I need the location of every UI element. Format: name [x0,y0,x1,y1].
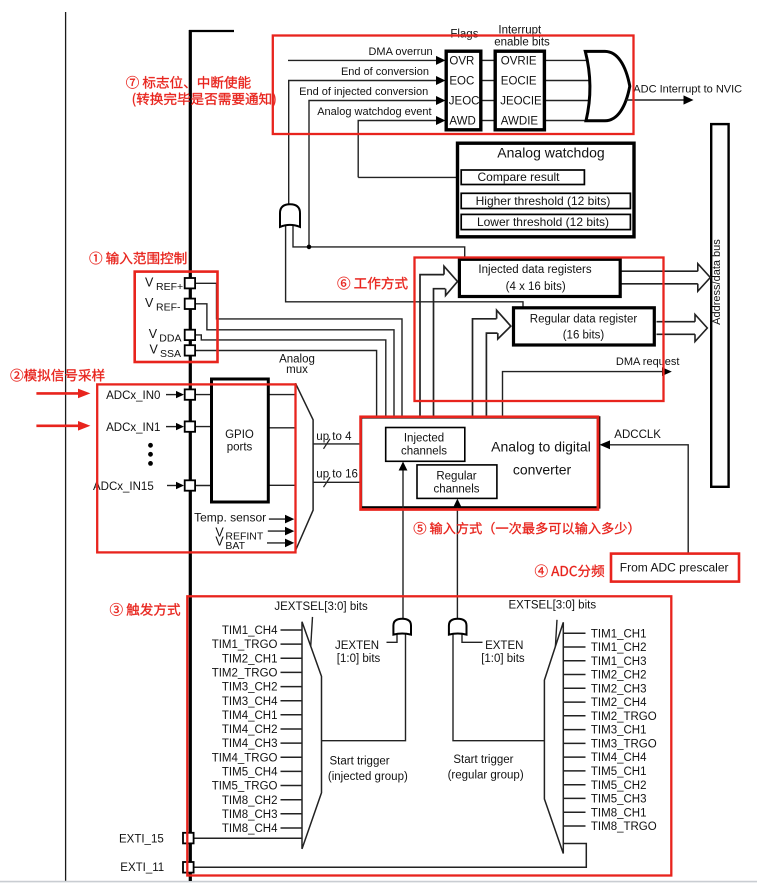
svg-text:TIM4_CH2: TIM4_CH2 [222,724,278,736]
svg-text:[1:0] bits: [1:0] bits [481,653,525,665]
red label 5 [414,522,632,535]
red arrow into ADCx_IN0 [36,392,80,395]
wire EXTI_15 [194,837,302,839]
svg-text:GPIO: GPIO [225,429,254,441]
svg-text:Injected: Injected [404,432,444,444]
wire: EOC gate input 2 / JEOC to injected register [293,226,465,260]
red label 7 [126,76,250,89]
injected channels box [386,428,465,462]
svg-text:Analog watchdog: Analog watchdog [497,144,604,160]
svg-text:TIM1_CH4: TIM1_CH4 [222,625,278,637]
svg-text:TIM2_CH1: TIM2_CH1 [222,653,278,665]
svg-text:TIM4_CH3: TIM4_CH3 [222,738,278,750]
regular channels box [417,465,497,499]
wire JEXTSEL select [311,617,313,650]
svg-text:TIM1_CH2: TIM1_CH2 [591,642,647,654]
svg-text:TIM5_CH1: TIM5_CH1 [591,766,647,778]
pin ADCx_IN0 [185,389,195,399]
svg-text:TIM5_TRGO: TIM5_TRGO [212,781,278,793]
svg-text:V: V [150,342,159,356]
svg-text:up to 16: up to 16 [316,469,358,481]
svg-text:OVR: OVR [449,55,474,67]
wire: compare result to AWD [358,176,462,178]
svg-text:DMA overrun: DMA overrun [368,46,432,58]
pin boundary thick line [189,30,192,881]
red label 2 [11,369,105,382]
svg-text:Start trigger: Start trigger [330,756,390,768]
svg-text:TIM8_CH2: TIM8_CH2 [222,795,278,807]
svg-text:Regular data register: Regular data register [530,314,638,326]
wire up to 4 [313,443,381,445]
svg-text:Temp. sensor: Temp. sensor [194,510,266,524]
svg-text:TIM1_CH1: TIM1_CH1 [591,628,647,640]
red annotation box 2 analog sampling [97,384,295,552]
left mux trapezoid (injected trigger) [302,622,322,849]
red annotation box 3 triggers [187,596,671,875]
svg-text:End of conversion: End of conversion [341,66,429,78]
svg-text:JEXTSEL[3:0] bits: JEXTSEL[3:0] bits [274,601,368,613]
svg-text:AWD: AWD [449,116,475,128]
svg-text:TIM3_CH4: TIM3_CH4 [222,696,278,708]
wires: enable box to OR gate [546,60,594,120]
pin VDDA [185,330,195,340]
wire inner shaft line regular [486,333,497,464]
svg-text:V: V [145,296,154,310]
svg-text:TIM2_TRGO: TIM2_TRGO [212,668,278,680]
wire JEXTEN label to gate [387,634,398,642]
flags register box [446,51,481,130]
svg-text:Lower threshold (12 bits): Lower threshold (12 bits) [477,215,609,229]
svg-text:EXTSEL[3:0] bits: EXTSEL[3:0] bits [509,600,597,612]
wire ADCCLK [609,445,688,554]
pin ADCx_IN1 [185,421,195,431]
svg-text:EXTI_15: EXTI_15 [119,833,164,845]
svg-text:DDA: DDA [159,332,181,344]
wire ADCx_IN1 [195,426,212,428]
red annotation box 5 converter [361,417,598,510]
right mux trapezoid (regular trigger) [544,622,563,853]
svg-text:JEXTEN: JEXTEN [335,640,379,652]
svg-text:(16 bits): (16 bits) [563,330,605,342]
svg-text:channels: channels [401,445,447,457]
pin EXTI_15 [183,833,194,844]
ellipsis dots [148,443,153,448]
pin ADCx_IN15 [185,480,195,490]
svg-text:EOC: EOC [449,76,474,88]
svg-text:EXTEN: EXTEN [485,640,523,652]
wire: ADC interrupt output [626,99,685,101]
svg-text:Start trigger: Start trigger [453,754,513,766]
hollow arrow regular register to bus [657,315,708,342]
svg-text:Compare result: Compare result [477,170,560,184]
svg-text:TIM2_TRGO: TIM2_TRGO [591,711,657,723]
red label 3 [110,603,180,616]
injected data registers box [459,259,620,296]
svg-text:ADCx_IN1: ADCx_IN1 [106,422,160,434]
wire: DMA request [503,372,664,420]
interrupt enable box [495,51,544,130]
svg-text:TIM5_CH2: TIM5_CH2 [591,780,647,792]
svg-text:(4 x 16 bits): (4 x 16 bits) [506,281,566,293]
svg-text:Regular: Regular [436,470,476,482]
svg-text:TIM2_CH4: TIM2_CH4 [591,697,647,709]
svg-text:AWDIE: AWDIE [501,116,539,128]
svg-text:REF+: REF+ [156,281,183,293]
svg-text:SSA: SSA [160,348,181,360]
svg-text:V: V [145,275,154,289]
svg-text:TIM4_TRGO: TIM4_TRGO [212,752,278,764]
svg-text:[1:0] bits: [1:0] bits [337,653,381,665]
svg-text:(regular group): (regular group) [448,769,524,781]
svg-text:converter: converter [513,462,572,478]
page left rule line [65,12,67,881]
svg-text:ports: ports [227,442,253,454]
svg-text:End of injected conversion: End of injected conversion [299,86,428,98]
svg-text:TIM5_CH4: TIM5_CH4 [222,767,278,779]
wire EXTSEL select [555,620,557,653]
wire ADCx_IN0 [195,394,212,396]
svg-text:V: V [149,327,158,341]
GPIO ports box [212,379,269,502]
analog watchdog box [458,143,635,237]
svg-text:REF-: REF- [156,301,181,313]
wire VREF- routing [195,304,394,420]
red arrow into ADCx_IN1 [36,424,80,427]
trigger wire regular (EXTEN gate output) [456,506,458,619]
wire+head hollow arrow injected channels to injected registers (outer) [420,275,444,427]
svg-text:Analog watchdog event: Analog watchdog event [317,106,431,118]
svg-text:TIM4_CH1: TIM4_CH1 [222,710,278,722]
svg-text:JEOCIE: JEOCIE [500,96,542,108]
junction node JEOC [307,245,312,250]
wire: Analog watchdog event feed [358,121,437,178]
svg-text:OVRIE: OVRIE [501,55,537,67]
wire VREF+ routing [195,283,402,419]
OR gate U2 end-of-conversion [280,204,300,227]
pin EXTI_11 [183,862,194,873]
svg-text:Injected data registers: Injected data registers [478,264,591,276]
svg-text:TIM8_CH4: TIM8_CH4 [222,823,278,835]
svg-text:EOCIE: EOCIE [501,76,537,88]
From ADC prescaler box (red) [611,554,739,582]
svg-text:TIM2_CH2: TIM2_CH2 [591,670,647,682]
svg-text:ADCx_IN0: ADCx_IN0 [106,390,160,402]
wire: End of conversion feed [289,81,437,205]
wire left mux output to JEXTEN gate [322,634,406,741]
page bottom rule line [0,881,757,883]
wire ADCx_IN15 [195,485,212,487]
AND gate EXTEN [449,619,467,635]
svg-text:TIM3_CH1: TIM3_CH1 [591,725,647,737]
svg-text:DMA request: DMA request [616,356,680,368]
svg-text:TIM4_CH4: TIM4_CH4 [591,752,647,764]
hollow arrow head injected [444,266,458,295]
red annotation box 7 flags [273,36,634,135]
svg-text:BAT: BAT [225,540,245,552]
compare result box [461,170,584,185]
svg-text:TIM1_CH3: TIM1_CH3 [591,656,647,668]
svg-text:TIM3_CH2: TIM3_CH2 [222,682,278,694]
lower threshold box [461,214,630,229]
wire right mux output to EXTEN gate [453,634,544,741]
hollow arrow injected registers to bus [621,264,710,292]
red label 1 [90,252,187,265]
hollow arrow head regular [497,310,511,339]
pin VREF- [185,299,195,309]
regular data register box [514,308,655,345]
svg-text:V: V [215,535,224,549]
svg-text:channels: channels [433,483,479,495]
trigger wire injected (JEXTEN gate output) [402,469,404,619]
svg-text:ADCx_IN15: ADCx_IN15 [93,481,154,493]
svg-text:TIM8_TRGO: TIM8_TRGO [591,821,657,833]
wire EXTI_11 to right mux [194,844,586,868]
red label 6 [338,277,408,290]
svg-text:From ADC prescaler: From ADC prescaler [620,561,729,575]
analog mux trapezoid [296,383,314,550]
OR gate U1 interrupt [585,51,630,120]
red label 4 [535,565,604,578]
svg-text:ADCCLK: ADCCLK [614,429,661,441]
svg-text:(injected group): (injected group) [328,771,408,783]
svg-text:TIM3_TRGO: TIM3_TRGO [591,739,657,751]
svg-text:Analog to digital: Analog to digital [491,438,591,454]
svg-text:up to 4: up to 4 [316,431,352,443]
red annotation box 1 input range [135,272,218,362]
top corner stub wire [189,30,234,32]
wire EXTEN label to gate [462,634,483,642]
svg-text:mux: mux [286,364,308,376]
AND gate JEXTEN [393,619,411,635]
svg-text:TIM5_CH3: TIM5_CH3 [591,794,647,806]
wire+shaft hollow arrow regular channels to regular register (outer) [473,319,497,465]
svg-text:Address/data bus: Address/data bus [711,239,723,325]
pin VSSA [185,345,195,355]
wire: End of injected conversion feed [309,101,437,247]
svg-text:JEOC: JEOC [449,96,480,108]
svg-text:TIM1_TRGO: TIM1_TRGO [212,639,278,651]
wire: DMA overrun [288,59,437,61]
svg-text:ADC Interrupt to NVIC: ADC Interrupt to NVIC [633,84,742,96]
svg-text:enable bits: enable bits [494,36,550,48]
svg-text:EXTI_11: EXTI_11 [120,862,164,874]
wires: flags to enable box [483,60,495,120]
svg-text:TIM2_CH3: TIM2_CH3 [591,683,647,695]
red annotation box 6 data registers [415,258,664,402]
svg-text:TIM8_CH1: TIM8_CH1 [591,807,647,819]
svg-text:TIM8_CH3: TIM8_CH3 [222,809,278,821]
pin VREF+ [185,278,195,288]
converter black box [361,417,599,507]
wire up to 16 [313,481,411,483]
higher threshold box [461,193,630,208]
wire VDDA routing [195,335,386,420]
svg-text:Higher threshold (12 bits): Higher threshold (12 bits) [476,194,611,208]
wire VSSA routing [195,351,377,420]
wire: EOC gate input 1 to regular register [286,226,523,308]
bus box Address/data bus [711,124,728,487]
wire inner shaft line injected [434,289,446,427]
